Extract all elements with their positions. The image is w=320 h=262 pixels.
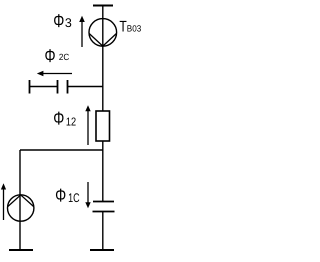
arrow Phi_3 (up) bbox=[81, 21, 83, 47]
svg-text:B03: B03 bbox=[127, 24, 141, 34]
terminal bar bottom right bbox=[90, 249, 114, 251]
svg-text:Φ: Φ bbox=[45, 45, 56, 66]
wire right vertical (box to cap) bbox=[102, 141, 104, 201]
wire top vertical bbox=[102, 6, 104, 112]
terminal bar left bbox=[29, 80, 31, 94]
svg-text:Φ: Φ bbox=[55, 185, 66, 206]
wire below cap bbox=[102, 212, 104, 251]
svg-text:2C: 2C bbox=[59, 52, 70, 62]
terminal bar bottom left bbox=[9, 249, 33, 251]
junction device bottom (circle with inverted V) bbox=[8, 195, 34, 221]
svg-text:Φ: Φ bbox=[53, 10, 64, 31]
arrow current (up, far left) bbox=[3, 188, 5, 220]
arrow Phi_12 (up) bbox=[87, 110, 89, 145]
svg-text:Φ: Φ bbox=[53, 107, 64, 128]
wire horizontal middle bbox=[20, 149, 103, 151]
capacitor C1C bbox=[93, 201, 114, 203]
arrow Phi_1C (down) bbox=[87, 182, 89, 203]
arrow Phi_2C (left) bbox=[42, 73, 72, 75]
terminal bar top bbox=[93, 5, 113, 7]
capacitor C2C bbox=[57, 80, 59, 94]
resistor box bbox=[96, 111, 110, 141]
wire bbox=[30, 86, 58, 88]
wire left vertical bbox=[19, 150, 21, 250]
junction device T (circle with V) bbox=[89, 19, 117, 47]
svg-text:1C: 1C bbox=[68, 191, 80, 205]
wire bbox=[68, 86, 103, 88]
svg-text:3: 3 bbox=[65, 16, 72, 30]
svg-text:12: 12 bbox=[66, 116, 76, 128]
